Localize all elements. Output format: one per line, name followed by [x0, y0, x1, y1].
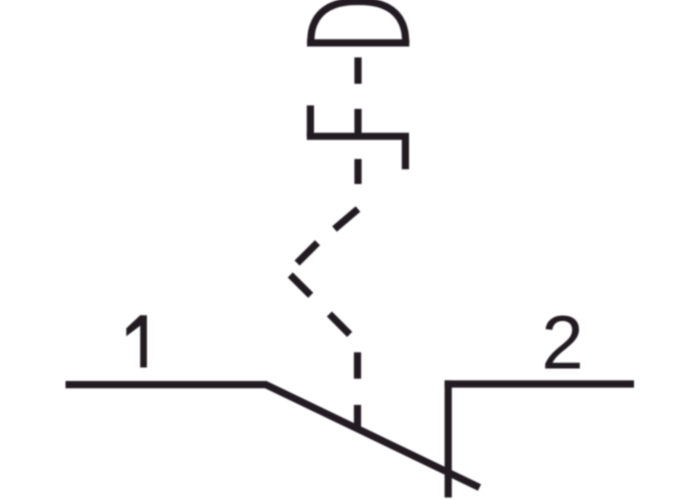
- actuator link dash h: [354, 352, 361, 378]
- terminal label 1: [126, 315, 147, 367]
- actuator link dash i: [354, 405, 361, 428]
- mushroom head base line: [307, 39, 409, 46]
- fixed contact post (terminal 2): [445, 380, 452, 497]
- latching mechanism left arm: [307, 105, 314, 136]
- actuator link dash c: [354, 159, 361, 184]
- mushroom head dome (emergency-stop actuator): [311, 2, 406, 44]
- latching mechanism right arm: [402, 136, 409, 169]
- actuator stem dash b: [354, 109, 361, 136]
- actuator stem dash a: [354, 57, 361, 83]
- actuator link dash g: [329, 314, 349, 334]
- actuator link dash d: [335, 209, 359, 229]
- wire terminal 2: [445, 380, 634, 387]
- moving contact lever: [265, 384, 480, 487]
- wire terminal 1: [66, 381, 267, 388]
- svg-text:2: 2: [541, 301, 583, 386]
- actuator link dash f: [290, 275, 310, 295]
- latching mechanism bar: [307, 133, 409, 140]
- actuator link dash e: [297, 243, 317, 263]
